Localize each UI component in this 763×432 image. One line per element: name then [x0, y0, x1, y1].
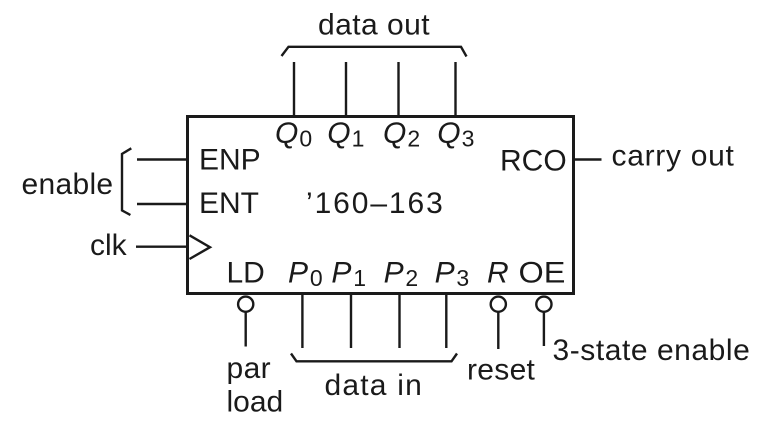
wire pin P2: [398, 295, 400, 348]
clock wedge: [190, 235, 211, 259]
svg-text:data out: data out: [318, 9, 430, 42]
wire pin Q2: [397, 62, 399, 115]
bubble LD: [238, 297, 253, 312]
svg-text:LD: LD: [227, 256, 265, 289]
wire pin P1: [350, 295, 352, 348]
wire pin P0: [301, 295, 303, 348]
wire RCO carry out: [575, 158, 602, 160]
svg-text:enable: enable: [22, 168, 114, 201]
svg-text:ENP: ENP: [199, 143, 261, 176]
svg-text:3-state enable: 3-state enable: [553, 334, 751, 367]
counter U1 '160-163 body: [188, 117, 574, 294]
wire OE: [543, 313, 545, 347]
wire pin P3: [445, 295, 447, 348]
svg-text:par: par: [227, 352, 272, 385]
wire pin Q0: [293, 62, 295, 115]
wire R: [497, 313, 499, 350]
svg-text:R: R: [487, 256, 509, 289]
bubble OE: [536, 297, 551, 312]
wire ENP: [137, 158, 187, 160]
wire pin Q1: [345, 62, 347, 115]
svg-text:reset: reset: [467, 354, 536, 387]
bubble R: [491, 297, 506, 312]
svg-text:’160–163: ’160–163: [306, 187, 445, 220]
wire LD: [244, 313, 246, 347]
svg-text:ENT: ENT: [199, 187, 259, 220]
wire pin Q3: [454, 62, 456, 115]
wire ENT: [137, 203, 187, 205]
svg-text:carry out: carry out: [612, 140, 735, 173]
bracket data out: [282, 47, 467, 57]
svg-text:load: load: [227, 386, 284, 419]
brace enable: [122, 148, 131, 215]
svg-text:data in: data in: [325, 369, 423, 402]
svg-text:clk: clk: [90, 229, 128, 262]
svg-text:RCO: RCO: [500, 145, 567, 178]
wire clk: [136, 245, 187, 247]
bracket data in: [291, 354, 457, 362]
svg-text:OE: OE: [519, 256, 566, 289]
